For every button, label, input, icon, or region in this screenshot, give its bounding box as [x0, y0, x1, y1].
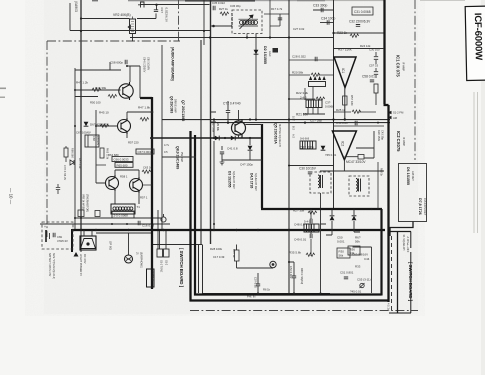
wire h y138 squelch det	[150, 137, 262, 139]
svg-text:D3 1S1555: D3 1S1555	[228, 171, 232, 188]
svg-text:R2? 1k: R2? 1k	[219, 7, 228, 11]
capacitor C46 boxed	[358, 155, 364, 160]
svg-text:C68: C68	[92, 136, 96, 141]
svg-text:?45 0.01: ?45 0.01	[325, 153, 337, 157]
svg-text:C31 0.0068: C31 0.0068	[354, 10, 371, 14]
svg-text:C51 0.801: C51 0.801	[340, 271, 354, 275]
capacitor c57	[375, 68, 377, 78]
wire rail x210	[210, 0, 212, 244]
wire L switch board feed	[390, 222, 413, 237]
svg-text:— 10 —: — 10 —	[9, 188, 14, 205]
junction dots bus	[80, 30, 379, 295]
cap c58	[370, 80, 374, 82]
wires d7 d8	[321, 193, 355, 235]
svg-text:SQUELCH DET: SQUELCH DET	[232, 171, 235, 189]
wire rail x333.5	[333, 0, 335, 209]
scan smudge top edge 3	[297, 0, 325, 1]
capacitor C34	[320, 22, 334, 24]
svg-text:R22 3.3k: R22 3.3k	[296, 91, 309, 95]
component box near D2	[273, 48, 279, 53]
wire bottom rail y293.5	[202, 293, 330, 295]
wire q6 base	[96, 110, 118, 150]
svg-text:100/10V: 100/10V	[96, 136, 100, 146]
wire h y30.5	[70, 30, 136, 32]
speaker SP	[80, 236, 96, 250]
node bm2	[293, 292, 295, 294]
svg-text:T1: T1	[137, 205, 141, 209]
svg-text:C54 0.022: C54 0.022	[289, 266, 293, 279]
wire audio right edge x162	[161, 45, 163, 231]
node x214 bus	[213, 229, 215, 231]
transistor Q9	[130, 177, 143, 193]
svg-text:C67 0.001: C67 0.001	[138, 150, 152, 154]
scan smudge top edge	[185, 0, 255, 2]
svg-text:C35 0.022: C35 0.022	[212, 1, 225, 5]
svg-text:4 5.1V: 4 5.1V	[387, 303, 391, 311]
wire v x376	[375, 93, 377, 105]
wire h y75	[75, 62, 121, 70]
svg-text:C5? 0.02: C5? 0.02	[254, 277, 258, 288]
svg-text:R21 10k: R21 10k	[296, 113, 308, 117]
node j2	[80, 17, 82, 19]
node y37 b	[269, 36, 271, 38]
svg-text:WR 68k: WR 68k	[216, 122, 219, 132]
resistor hatch block C	[304, 224, 319, 232]
svg-text:Q8,9 2SC1489: Q8,9 2SC1489	[176, 146, 180, 169]
transistor Q6	[118, 118, 131, 134]
svg-text:R6 1k: R6 1k	[263, 288, 271, 292]
capacitor C69	[53, 233, 55, 237]
thick board outline outer	[189, 131, 389, 301]
thick bus h y230	[72, 229, 385, 231]
wire h y19 VR2	[81, 18, 130, 20]
wire to q8 q9	[96, 150, 139, 183]
zener D9	[70, 160, 74, 165]
resistor r20	[311, 73, 320, 76]
svg-text:R4? 1.2k: R4? 1.2k	[76, 81, 89, 85]
squelch wires	[214, 101, 262, 162]
svg-text:C30 10/16V: C30 10/16V	[299, 167, 317, 171]
capacitor C68 boxed	[85, 135, 99, 147]
wire q9 to bus	[96, 165, 152, 185]
resistor r24	[374, 84, 378, 93]
op-amp IC1	[334, 57, 356, 88]
svg-text:C2? 0.02: C2? 0.02	[293, 27, 305, 31]
svg-text:(EARPHONE): (EARPHONE)	[140, 252, 143, 268]
capacitor c54	[292, 276, 296, 278]
svg-text:CT2 0.4?/40: CT2 0.4?/40	[223, 102, 241, 106]
transistor Q5	[232, 119, 246, 138]
boundary dash-dot h y41	[47, 40, 180, 42]
boundary dash-dot h y310.5	[190, 310, 418, 312]
transistor Q7	[119, 82, 133, 100]
svg-text:?45 0.01: ?45 0.01	[350, 290, 362, 294]
svg-text:0.001: 0.001	[337, 240, 345, 244]
battery symbol	[46, 230, 50, 242]
resistor on ic1 out	[343, 96, 347, 105]
resistor r25	[352, 110, 361, 113]
resistor hatch block B	[300, 141, 316, 149]
page edge line right	[474, 92, 478, 233]
diode D8	[352, 216, 357, 220]
battery dashed box	[42, 222, 73, 249]
svg-text:[ SWITCH BOARD ]: [ SWITCH BOARD ]	[408, 262, 413, 302]
left col parts	[56, 146, 74, 194]
jack J1 earphone	[125, 252, 133, 264]
ground circle g1	[161, 214, 166, 222]
svg-text:+: +	[44, 225, 46, 229]
svg-text:B-2: B-2	[292, 126, 295, 131]
svg-text:R65 680: R65 680	[117, 163, 128, 167]
svg-text:J2 EXT POWER IN: J2 EXT POWER IN	[79, 254, 82, 276]
boundary dash-dot v x415	[414, 0, 416, 160]
switch dashed line	[391, 236, 393, 310]
diode D4	[248, 146, 253, 150]
punch mark b	[0, 97, 5, 99]
capacitor c51	[344, 277, 348, 279]
wire y75b	[289, 74, 334, 76]
capacitor c35	[213, 6, 215, 10]
svg-text:R38 4.7M(AM): R38 4.7M(AM)	[300, 268, 303, 284]
thick stub v x72 battery	[71, 229, 73, 252]
speaker dot	[86, 242, 89, 245]
node d3	[224, 137, 226, 139]
svg-text:0.022/6.3V: 0.022/6.3V	[165, 8, 169, 23]
wire h y114	[303, 113, 325, 115]
transformer dashed box B	[349, 176, 369, 196]
svg-text:(0A903: (0A903	[74, 1, 78, 12]
scan smudge top edge 6	[325, 0, 385, 1]
transformer T1	[111, 204, 135, 214]
connector bracket	[138, 2, 144, 8]
svg-text:R58 1: R58 1	[120, 175, 128, 179]
diode D61	[84, 122, 89, 126]
svg-text:C41 0.8: C41 0.8	[227, 147, 238, 151]
svg-text:C44: C44	[364, 257, 370, 261]
capacitor C66 boxed	[112, 157, 133, 162]
resistor r47	[140, 118, 149, 121]
wire h y31	[136, 30, 210, 32]
svg-text:IC2 CX075: IC2 CX075	[396, 131, 401, 152]
svg-text:C2? 39p: C2? 39p	[310, 119, 322, 123]
svg-text:R5? 220: R5? 220	[128, 141, 139, 145]
svg-text:A-2: A-2	[292, 134, 295, 139]
svg-text:ICF-6000W: ICF-6000W	[472, 13, 484, 62]
wire y126	[334, 125, 384, 127]
svg-text:MUTING SQUELCH: MUTING SQUELCH	[278, 124, 281, 147]
small part a	[78, 210, 84, 217]
svg-text:SIZE "C"(SUM-2)(UM-2): SIZE "C"(SUM-2)(UM-2)	[52, 253, 55, 279]
resistor R30 boxed	[337, 248, 350, 258]
audio wires	[75, 62, 152, 204]
resistor extra a	[142, 170, 151, 173]
svg-text:10-7: 10-7	[292, 116, 295, 122]
boundary dash-dot v x178.5	[178, 0, 180, 41]
wire s2 stubs	[160, 231, 167, 249]
diode D3a	[215, 136, 219, 141]
resistor R31	[235, 250, 240, 261]
connector S2 box a	[157, 249, 163, 257]
wire c50b	[257, 273, 259, 294]
transformer dashed box A	[310, 172, 331, 193]
wire y112	[334, 111, 376, 113]
capacitor C16	[138, 221, 140, 225]
svg-text:470/6.3V: 470/6.3V	[57, 239, 68, 243]
svg-text:C5? 33: C5? 33	[369, 64, 378, 68]
connector arrows S1-2	[388, 111, 392, 120]
svg-text:R5? 1: R5? 1	[140, 196, 148, 200]
svg-text:L7 AM OSC: L7 AM OSC	[230, 13, 234, 28]
svg-text:C58 0.01: C58 0.01	[362, 75, 375, 79]
svg-text:C16 0.39: C16 0.39	[142, 223, 155, 227]
capacitor C37	[137, 5, 157, 19]
svg-text:IF AMP: IF AMP	[402, 137, 406, 146]
small part b	[95, 211, 100, 217]
svg-text:C3? 330p: C3? 330p	[300, 146, 314, 150]
wire bus y122.6	[211, 122, 391, 124]
wire h y171	[320, 170, 384, 172]
svg-text:C37: C37	[160, 8, 164, 14]
capacitor c40	[278, 18, 282, 20]
punch mark a	[0, 88, 6, 90]
diode D7	[330, 216, 335, 220]
node j1	[155, 4, 157, 6]
diode det	[321, 146, 326, 150]
svg-text:56k: 56k	[355, 240, 360, 244]
svg-text:PHI. IN: PHI. IN	[247, 295, 255, 299]
scan smudge top edge 4	[128, 0, 185, 1]
resistor R23	[350, 34, 359, 37]
wire h y224	[40, 223, 170, 225]
svg-text:SP 8Ω: SP 8Ω	[109, 241, 113, 251]
svg-text:R50 100: R50 100	[90, 101, 101, 105]
svg-text:D4,5 1T26: D4,5 1T26	[250, 173, 254, 189]
ground sq	[220, 162, 225, 165]
wire ic1 out	[344, 88, 346, 120]
ground circle g2	[270, 261, 276, 267]
wire q6 out	[127, 112, 152, 138]
wire x270	[264, 0, 289, 26]
node j3	[212, 25, 215, 28]
wire h y33 right	[334, 32, 385, 34]
svg-text:MC47 33/10V: MC47 33/10V	[346, 160, 366, 164]
jack J2 arrow	[74, 252, 79, 257]
svg-text:R5? 2.2k: R5? 2.2k	[78, 158, 82, 169]
wire x204 top	[203, 0, 205, 45]
svg-text:C6? 100/6V: C6? 100/6V	[76, 131, 91, 135]
resistor r35	[306, 253, 315, 256]
trimmer ct2	[226, 106, 230, 121]
capacitor c30	[308, 172, 312, 174]
svg-text:S3-2: S3-2	[165, 260, 168, 266]
svg-text:C48 0.8: C48 0.8	[294, 223, 305, 227]
resistor R65 boxed	[115, 163, 133, 168]
resistor R69	[65, 146, 67, 148]
svg-text:C28 0.022: C28 0.022	[292, 55, 306, 59]
wire h y165	[289, 165, 334, 167]
svg-text:C55 (3-11): C55 (3-11)	[357, 278, 371, 282]
transistor Q8	[106, 175, 119, 191]
scan smudge top edge 2	[92, 0, 98, 1]
svg-text:C64 0.22/50V: C64 0.22/50V	[143, 57, 146, 73]
wire r31	[237, 245, 274, 269]
capacitor c30b	[375, 52, 377, 64]
svg-text:R69 560: R69 560	[71, 148, 75, 158]
svg-text:C45 0.01: C45 0.01	[336, 121, 348, 125]
svg-text:AM DET: AM DET	[411, 171, 415, 181]
svg-text:2-5 0.0068: 2-5 0.0068	[114, 213, 129, 217]
svg-text:C53 0.8/16V: C53 0.8/16V	[352, 253, 368, 257]
svg-text:R45 10: R45 10	[99, 111, 109, 115]
wire v x311	[310, 209, 312, 256]
capacitor c49	[310, 234, 312, 238]
ic2 wires	[344, 131, 374, 171]
scan smudge top edge 7	[420, 0, 465, 1]
svg-text:R20 56k: R20 56k	[292, 71, 304, 75]
cap c45	[355, 121, 357, 125]
resistor hatch block A	[306, 100, 322, 108]
svg-text:C33 390p: C33 390p	[313, 4, 327, 8]
switch board box	[389, 232, 411, 314]
svg-text:AGC: AGC	[268, 51, 272, 57]
wire y96	[75, 96, 98, 98]
wire top h y4.5	[140, 4, 210, 6]
wire h y218 audio bottom	[75, 217, 162, 219]
wire j1	[128, 233, 130, 252]
svg-text:C32 2200/6.3V: C32 2200/6.3V	[349, 20, 371, 24]
svg-text:IC1: IC1	[341, 68, 345, 73]
svg-text:DC 4.5V: DC 4.5V	[83, 254, 86, 264]
toner wash	[44, 0, 418, 314]
wire v x214 down	[213, 141, 215, 230]
svg-text:C30 100: C30 100	[369, 48, 380, 52]
svg-text:R35 5.6k: R35 5.6k	[289, 251, 302, 255]
svg-text:0.0068: 0.0068	[325, 104, 334, 108]
resistor r45	[100, 124, 109, 127]
thick bus squelch v x262	[261, 124, 382, 209]
svg-text:VR2 40K(B): VR2 40K(B)	[113, 13, 131, 17]
svg-text:0.5: 0.5	[164, 150, 168, 154]
svg-text:C43 39p: C43 39p	[381, 130, 385, 140]
components left of thick line	[374, 52, 378, 105]
boundary dash-dot v x47	[46, 41, 48, 237]
wire h y26 to osc	[210, 25, 232, 27]
capacitor C67 boxed	[136, 149, 154, 154]
scan edge shading right	[481, 0, 485, 375]
boxed cap row y211	[112, 211, 134, 218]
svg-text:C69: C69	[57, 235, 62, 239]
resistor R22	[316, 97, 325, 100]
svg-text:VR8 1k WVBL: VR8 1k WVBL	[82, 194, 85, 211]
svg-text:R46 39k: R46 39k	[95, 86, 107, 90]
svg-text:BATTERY 3PCS 4.5V: BATTERY 3PCS 4.5V	[48, 253, 51, 277]
wire stub osc	[247, 26, 270, 38]
trimmer c55	[360, 283, 365, 288]
wire q8 q9 down	[115, 191, 139, 204]
wire battery drop	[80, 231, 82, 252]
wire pins down	[305, 87, 318, 114]
transformer L7 AM OSC dashed box	[232, 10, 262, 34]
wire r22	[289, 98, 315, 100]
wire h y233 speaker	[96, 232, 152, 234]
diode D3b	[231, 136, 235, 141]
wire c54	[289, 262, 294, 294]
svg-text:R47 1.8k: R47 1.8k	[138, 106, 151, 110]
tick stubs x211	[211, 112, 217, 122]
svg-text:[AUDIO AMP BOARD]: [AUDIO AMP BOARD]	[171, 47, 175, 80]
POWER switch box	[147, 269, 155, 287]
wire R57	[334, 48, 384, 50]
capacitor C41	[220, 152, 224, 154]
thick bus right v x384.5	[384, 0, 389, 302]
resistor r46	[108, 95, 117, 98]
wire v x198.5	[198, 245, 200, 294]
wire v x202.5	[202, 245, 204, 294]
svg-text:C4? 150p: C4? 150p	[240, 163, 253, 167]
wire h y37.5	[130, 37, 334, 39]
svg-text:R3? 1k: R3? 1k	[232, 249, 236, 258]
wire q7 base	[75, 89, 121, 91]
svg-text:D6? 470/6.3V: D6? 470/6.3V	[90, 123, 108, 127]
wire rail x81	[80, 0, 82, 231]
svg-text:C17 0.39: C17 0.39	[213, 255, 225, 259]
cap c28	[315, 57, 317, 61]
node y37 a	[246, 36, 248, 38]
svg-text:S1-2 FM: S1-2 FM	[393, 111, 404, 115]
extra audio labels	[76, 101, 170, 200]
svg-text:R1? 4.7k: R1? 4.7k	[271, 7, 283, 11]
wire q7 collector	[127, 66, 140, 98]
capacitor C32	[356, 25, 360, 27]
svg-text:C63 0.1: C63 0.1	[143, 166, 153, 170]
svg-text:C70 4.7/6.3V: C70 4.7/6.3V	[63, 165, 67, 180]
svg-text:Q6 2SC383: Q6 2SC383	[170, 96, 174, 113]
thick board outline inner	[194, 135, 382, 296]
capacitor c58a	[125, 60, 127, 64]
resistor r43	[92, 88, 101, 91]
svg-text:C49 0.01: C49 0.01	[294, 238, 307, 242]
svg-text:R2? 30k: R2? 30k	[293, 209, 305, 213]
svg-text:D2 1S1555: D2 1S1555	[263, 46, 267, 64]
wire h y157	[162, 156, 196, 158]
svg-text:C36 30p: C36 30p	[230, 4, 241, 8]
capacitor C33	[313, 9, 334, 11]
wire sp top	[84, 230, 92, 236]
svg-text:R33: R33	[355, 265, 361, 269]
capacitor C31 boxed	[352, 7, 373, 15]
svg-text:[ SWITCH BOARD ]: [ SWITCH BOARD ]	[179, 248, 184, 288]
svg-text:IC2: IC2	[341, 141, 345, 146]
scan smudge top edge 5	[255, 0, 297, 1]
wire v x70	[69, 3, 71, 31]
junction dots rails	[74, 30, 153, 225]
svg-text:R28 100k: R28 100k	[210, 247, 223, 251]
svg-text:R68 1k: R68 1k	[380, 168, 383, 177]
svg-text:SQUELCH DET: SQUELCH DET	[254, 173, 257, 191]
svg-text:C66 0.0033: C66 0.0033	[114, 158, 129, 162]
svg-text:POWER: POWER	[151, 271, 155, 281]
svg-text:(THERMISTOR): (THERMISTOR)	[86, 194, 89, 212]
wire v x158	[157, 210, 159, 249]
node bm1	[257, 292, 259, 294]
wire v x256	[255, 34, 257, 120]
svg-text:IC1 CX 075: IC1 CX 075	[396, 55, 401, 77]
diode D2	[254, 50, 259, 54]
svg-text:DRIVE AMP: DRIVE AMP	[174, 99, 177, 113]
connector body	[309, 82, 326, 87]
labels box D6 D78	[399, 164, 427, 222]
svg-text:S1 SQUELCH: S1 SQUELCH	[402, 235, 405, 251]
